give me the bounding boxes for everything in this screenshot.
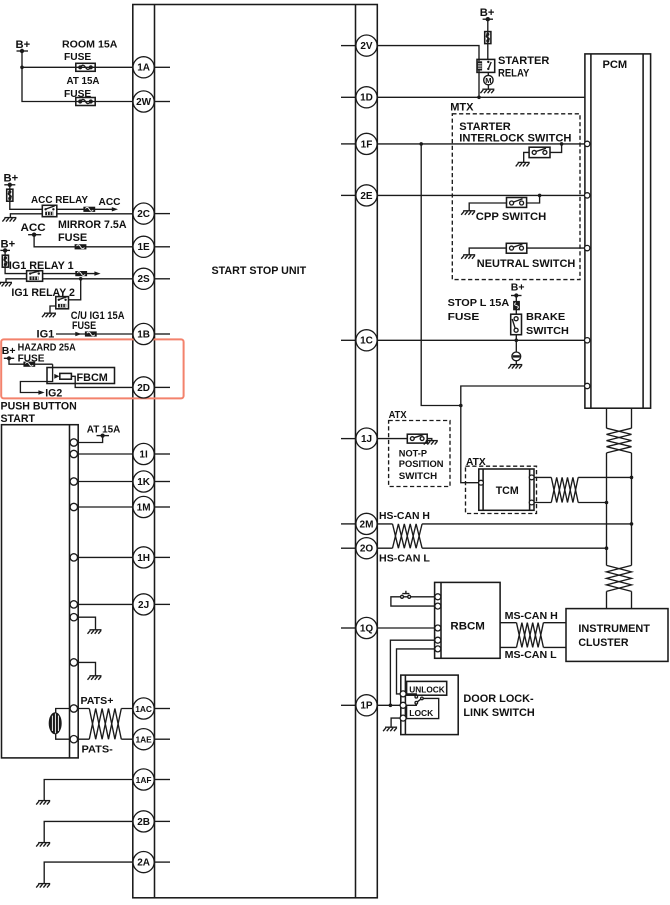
pin 1H xyxy=(133,547,170,568)
wire TCM pair to trunk xyxy=(578,477,631,502)
svg-text:STARTER: STARTER xyxy=(459,121,510,133)
svg-text:B+: B+ xyxy=(4,173,19,185)
node TCM L junction xyxy=(605,501,609,505)
fuse AT 15A xyxy=(76,98,95,106)
wire HS-CAN L xyxy=(377,547,606,549)
wire 1F branch down xyxy=(421,144,461,406)
svg-text:AT 15A: AT 15A xyxy=(87,423,121,435)
svg-text:HS-CAN H: HS-CAN H xyxy=(379,510,430,522)
svg-text:1A: 1A xyxy=(137,63,150,74)
svg-text:RBCM: RBCM xyxy=(450,621,485,633)
wire 2V to starter relay coil xyxy=(377,46,479,98)
wire 2A to ground xyxy=(44,862,133,884)
ground (door lock) xyxy=(383,727,397,731)
svg-text:1E: 1E xyxy=(137,242,150,253)
FBCM box xyxy=(47,368,115,384)
relay STARTER RELAY xyxy=(477,59,495,75)
B+ feed (hazard) xyxy=(2,345,53,364)
wire coil out to 2S xyxy=(43,278,133,280)
wire RBCM to door lock t1 xyxy=(397,649,435,694)
motor symbol (starter) xyxy=(484,75,493,89)
svg-text:1Q: 1Q xyxy=(360,623,374,634)
node HS-CAN L to trunk xyxy=(605,546,609,550)
fuse HAZARD 25A xyxy=(23,362,35,367)
wire relay coil to 2C xyxy=(57,213,133,215)
wire 1D to PCM xyxy=(377,96,585,98)
wire junction down to relay2 xyxy=(69,279,81,300)
wire 2E to PCM xyxy=(377,194,584,196)
CAN trunk lines xyxy=(607,453,632,566)
switch CPP xyxy=(469,195,539,210)
pin 1F xyxy=(341,133,377,154)
ground (starter relay) xyxy=(480,89,494,93)
node brake junction xyxy=(515,339,519,343)
ground (2B) xyxy=(36,843,50,847)
svg-text:POSITION: POSITION xyxy=(399,459,444,469)
twisted pair PATS xyxy=(89,709,121,740)
svg-text:RELAY: RELAY xyxy=(498,67,530,79)
PCM box xyxy=(585,54,651,408)
pin 1A xyxy=(133,57,170,78)
ground (IG1 relay2) xyxy=(42,313,56,317)
svg-text:2D: 2D xyxy=(137,383,150,394)
label IG2 (arrow) xyxy=(38,390,44,394)
svg-text:NOT-P: NOT-P xyxy=(399,448,427,458)
twisted pair TCM xyxy=(551,477,578,502)
svg-text:1AC: 1AC xyxy=(135,704,152,714)
highlight box (hazard FBCM circuit) xyxy=(1,339,183,398)
pin 2V xyxy=(341,35,377,56)
coil antenna (immobilizer) xyxy=(49,709,69,740)
push button start box xyxy=(2,425,79,758)
stop lamp bulb xyxy=(512,352,521,365)
wire IG1 to 1B xyxy=(56,333,133,335)
node AT 15A dot xyxy=(74,434,109,443)
svg-text:1F: 1F xyxy=(361,139,373,150)
start stop unit box xyxy=(133,5,377,898)
svg-text:CLUSTER: CLUSTER xyxy=(578,637,628,649)
svg-text:B+: B+ xyxy=(16,39,31,51)
wire PCM to TCM xyxy=(461,386,585,483)
svg-text:2C: 2C xyxy=(137,209,150,220)
svg-text:IG1: IG1 xyxy=(37,328,55,340)
wire FBCM internal bar xyxy=(20,364,52,392)
wire 1P to door lock xyxy=(377,704,401,706)
pin 1J xyxy=(341,428,377,449)
svg-text:2V: 2V xyxy=(360,41,373,52)
wire relay coil to ground xyxy=(10,214,42,218)
switch BRAKE xyxy=(511,314,522,352)
ATX dashed box (not-p) xyxy=(389,421,450,487)
ground (CPP) xyxy=(461,211,475,215)
ground (2A) xyxy=(36,884,50,888)
wire MS-CAN L xyxy=(500,646,566,648)
ATX dashed box (tcm) xyxy=(466,466,537,513)
svg-text:B+: B+ xyxy=(2,345,16,357)
pin 1K xyxy=(133,471,170,492)
svg-text:MS-CAN H: MS-CAN H xyxy=(505,610,558,622)
B+ feed (IG1 relay 1) xyxy=(0,239,26,274)
svg-text:M: M xyxy=(485,76,491,85)
pin 1AE xyxy=(133,729,170,750)
node 1F branch xyxy=(419,142,423,146)
fuse C/U IG1 15A xyxy=(85,331,97,336)
node CPP junction xyxy=(538,194,542,198)
svg-text:STARTER: STARTER xyxy=(498,55,549,67)
pin 2W xyxy=(133,91,170,112)
svg-text:FUSE: FUSE xyxy=(448,311,480,323)
PCM terminal pins xyxy=(585,141,590,388)
ground (stop lamp) xyxy=(508,365,522,369)
switch NEUTRAL xyxy=(469,243,584,255)
twisted pair (trunk lower) xyxy=(607,565,632,591)
fuse ROOM 15A xyxy=(76,63,95,71)
svg-text:MS-CAN L: MS-CAN L xyxy=(505,649,558,661)
svg-text:START: START xyxy=(1,413,36,425)
pin 1B xyxy=(133,323,170,344)
B+ feed (stop lamp fuse) xyxy=(511,281,525,314)
pin 2M xyxy=(341,513,377,534)
svg-text:ACC: ACC xyxy=(99,196,121,208)
B+ feed (room/at fuses) xyxy=(16,39,133,102)
wire TCM CAN leads xyxy=(534,477,551,502)
svg-text:AT 15A: AT 15A xyxy=(67,75,100,87)
node TCM H junction xyxy=(630,476,634,480)
svg-text:ACC RELAY: ACC RELAY xyxy=(31,194,88,206)
B+ feed (starter relay) xyxy=(480,7,495,59)
fuse MIRROR 7.5A xyxy=(75,244,87,249)
svg-text:PCM: PCM xyxy=(603,59,628,71)
pin 2A xyxy=(133,852,170,873)
wire RBCM to 1P junction xyxy=(390,640,434,705)
node 1P junction xyxy=(389,704,393,708)
harness neck below PCM xyxy=(607,408,632,428)
pin 2B xyxy=(133,811,170,832)
node junction to relay2 xyxy=(79,277,83,281)
wire 1J to switch xyxy=(377,438,407,440)
relay IG1 RELAY 1 xyxy=(27,271,43,282)
svg-text:2J: 2J xyxy=(138,600,149,611)
pin 1M xyxy=(133,496,170,517)
svg-text:2S: 2S xyxy=(137,274,150,285)
fuse (ACC out) xyxy=(83,207,95,212)
pin 2S xyxy=(133,268,170,289)
svg-text:HS-CAN L: HS-CAN L xyxy=(379,553,430,565)
svg-text:PATS-: PATS- xyxy=(82,744,114,756)
UNLOCK label box xyxy=(407,681,447,695)
wire IG1 relay1 coil to ground xyxy=(6,279,27,283)
svg-text:FUSE: FUSE xyxy=(64,51,91,63)
wire door t3 to ground xyxy=(391,718,403,727)
pin 2J xyxy=(133,594,170,615)
ground (ACC relay) xyxy=(2,218,16,222)
svg-text:TCM: TCM xyxy=(496,485,519,497)
switch NOT-P POSITION xyxy=(407,434,432,443)
wire 1C to PCM xyxy=(377,339,584,341)
relay ACC xyxy=(42,205,57,216)
LOCK label box xyxy=(407,698,439,718)
svg-text:MIRROR 7.5A: MIRROR 7.5A xyxy=(58,219,127,231)
wire PATS- xyxy=(74,738,133,740)
pin 1D xyxy=(341,87,377,108)
svg-text:ROOM 15A: ROOM 15A xyxy=(62,39,118,51)
svg-text:2E: 2E xyxy=(360,191,373,202)
fuse (IG1 relay B+) xyxy=(2,255,8,267)
harness neck above cluster xyxy=(607,591,632,608)
svg-text:1D: 1D xyxy=(360,93,373,104)
RBCM terminal pins xyxy=(435,594,441,652)
svg-text:2O: 2O xyxy=(360,544,374,555)
push button terminals xyxy=(70,439,77,743)
svg-text:MTX: MTX xyxy=(450,101,474,113)
svg-text:1C: 1C xyxy=(360,336,373,347)
svg-text:DOOR LOCK-: DOOR LOCK- xyxy=(463,693,534,705)
svg-text:LOCK: LOCK xyxy=(409,709,433,718)
node HS-CAN H to trunk xyxy=(630,522,634,526)
svg-text:1B: 1B xyxy=(137,329,150,340)
pin 1AC xyxy=(133,698,170,719)
pin 2C xyxy=(133,203,170,224)
transistor arrow (FBCM) xyxy=(54,374,59,379)
wire relay2 to ground xyxy=(50,306,56,313)
svg-text:PUSH BUTTON: PUSH BUTTON xyxy=(1,401,77,413)
svg-text:FUSE: FUSE xyxy=(72,320,97,332)
node interlock junction xyxy=(560,142,564,146)
wire MS-CAN H xyxy=(500,622,566,624)
fuse (ACC relay B+) xyxy=(7,189,13,201)
B+ feed (ACC relay) xyxy=(4,173,43,210)
svg-text:START STOP UNIT: START STOP UNIT xyxy=(212,265,307,277)
pin 2O xyxy=(341,538,377,559)
wire terminal to ground (upper) xyxy=(74,617,96,630)
svg-text:2B: 2B xyxy=(137,817,150,828)
wire 1AF to ground xyxy=(44,780,133,801)
resistor (FBCM) xyxy=(60,373,72,379)
INSTRUMENT CLUSTER box xyxy=(566,609,668,662)
svg-text:FBCM: FBCM xyxy=(77,372,108,384)
twisted pair (PCM trunk upper) xyxy=(607,428,632,453)
wire PATS+ xyxy=(74,708,133,710)
svg-text:2A: 2A xyxy=(137,858,150,869)
svg-text:1H: 1H xyxy=(137,553,150,564)
pin 1E xyxy=(133,236,170,257)
wire 2B to ground xyxy=(44,821,133,842)
ground (neutral) xyxy=(461,255,475,259)
svg-text:1AF: 1AF xyxy=(136,775,152,785)
pin 2D xyxy=(133,377,170,398)
node coil to 1D line xyxy=(477,96,481,100)
pin 1C xyxy=(341,330,377,351)
svg-text:ATX: ATX xyxy=(389,409,407,421)
svg-text:1M: 1M xyxy=(137,502,151,513)
svg-text:B+: B+ xyxy=(1,239,16,251)
node branch junction xyxy=(459,404,463,408)
push switch (RBCM input) xyxy=(391,591,435,606)
svg-text:2W: 2W xyxy=(136,97,152,108)
svg-text:INSTRUMENT: INSTRUMENT xyxy=(578,623,650,635)
svg-text:2M: 2M xyxy=(360,519,374,530)
svg-text:INTERLOCK SWITCH: INTERLOCK SWITCH xyxy=(459,133,571,145)
DOOR LOCK-LINK SWITCH box xyxy=(401,675,458,735)
pin 1Q xyxy=(341,617,377,638)
switch STARTER INTERLOCK xyxy=(524,144,562,163)
pin 1AF xyxy=(133,769,170,790)
wire IG1 relay1 switch out + arrow xyxy=(43,273,95,275)
MTX dashed box xyxy=(452,114,580,280)
svg-text:BRAKE: BRAKE xyxy=(526,311,565,323)
wire resistor to 2D xyxy=(71,376,132,387)
pin 2E xyxy=(341,185,377,206)
wire terminal to ground (lower) xyxy=(74,662,96,675)
svg-text:LINK SWITCH: LINK SWITCH xyxy=(463,707,534,719)
svg-text:1J: 1J xyxy=(361,434,372,445)
ground (interlock) xyxy=(516,162,530,166)
ground (push button 1) xyxy=(88,630,102,634)
wire HS-CAN H xyxy=(377,523,631,525)
svg-text:NEUTRAL SWITCH: NEUTRAL SWITCH xyxy=(477,258,576,270)
svg-text:FUSE: FUSE xyxy=(58,232,88,244)
svg-text:1K: 1K xyxy=(137,477,151,488)
ground (push button 2) xyxy=(88,676,102,680)
ground (1AF) xyxy=(36,801,50,805)
pin 1I xyxy=(133,443,170,464)
ground (not-p) xyxy=(424,441,438,445)
fuse STOP L 15A xyxy=(513,301,520,310)
ground (IG1 relay1) xyxy=(0,282,12,286)
fuse (starter relay B+) xyxy=(485,32,491,44)
svg-text:PATS+: PATS+ xyxy=(81,695,114,707)
svg-text:SWITCH: SWITCH xyxy=(526,325,569,337)
svg-text:HAZARD 25A: HAZARD 25A xyxy=(18,341,77,353)
TCM box xyxy=(479,469,534,510)
svg-text:CPP SWITCH: CPP SWITCH xyxy=(476,211,546,223)
svg-text:1I: 1I xyxy=(139,449,148,460)
wire relay switch out to ACC arrow xyxy=(57,208,113,210)
pin 1P xyxy=(341,695,377,716)
door terminal pins xyxy=(400,691,406,721)
svg-text:ACC: ACC xyxy=(21,222,46,234)
RBCM box xyxy=(435,582,501,658)
node ACC dot xyxy=(28,233,133,247)
wire 1F to PCM xyxy=(377,143,584,145)
TCM terminal pins xyxy=(479,475,534,505)
svg-text:1AE: 1AE xyxy=(135,735,152,745)
svg-text:B+: B+ xyxy=(511,281,525,293)
svg-text:SWITCH: SWITCH xyxy=(399,471,437,481)
wire 1Q to RBCM xyxy=(377,627,434,629)
twisted pair HS-CAN xyxy=(393,524,423,548)
door lock switch contacts xyxy=(403,694,423,705)
twisted pair MS-CAN xyxy=(517,623,544,648)
svg-text:1P: 1P xyxy=(360,701,373,712)
wire terminals to pins xyxy=(74,454,133,604)
relay IG1 RELAY 2 xyxy=(56,297,69,309)
svg-text:STOP L 15A: STOP L 15A xyxy=(448,297,510,309)
svg-text:IG2: IG2 xyxy=(45,388,62,400)
